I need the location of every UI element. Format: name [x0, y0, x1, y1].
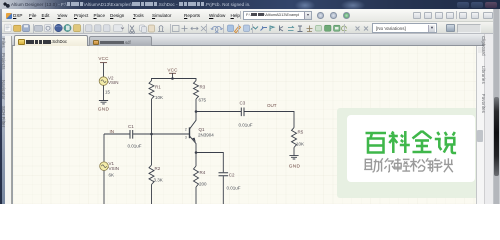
right panel tab strip — [484, 34, 493, 204]
wire C2 bottom — [222, 176, 224, 204]
left window frame — [0, 9, 2, 204]
svg-text:C3: C3 — [240, 101, 246, 106]
wire R4 bottom — [195, 187, 197, 204]
wire VCC rail — [152, 79, 197, 81]
R2 designator — [155, 166, 161, 171]
capacitor C3 — [241, 108, 244, 117]
svg-text:0.01uF: 0.01uF — [128, 144, 142, 149]
svg-text:10K: 10K — [296, 142, 304, 147]
junction VCC rail — [171, 77, 174, 80]
svg-text:2: 2 — [185, 127, 187, 131]
net label IN — [110, 129, 115, 134]
wire VCC bar to V2 — [103, 63, 105, 77]
Q1 designator — [199, 127, 206, 132]
resistor R1 — [149, 81, 154, 99]
wire C1 to Q1 base — [133, 133, 189, 135]
svg-text:R1: R1 — [155, 84, 161, 89]
toolbar — [0, 22, 500, 34]
svg-text:R2: R2 — [155, 166, 161, 171]
ground GND (R5) — [289, 156, 301, 170]
left panel tab strip — [5, 36, 12, 204]
transistor Q1 — [190, 112, 197, 153]
svg-text:R3: R3 — [200, 84, 206, 89]
voltage source V1 — [100, 162, 109, 171]
svg-text:C2: C2 — [229, 172, 235, 177]
R5 value 10K — [296, 142, 304, 147]
resistor R2 — [149, 165, 154, 185]
resistor R4 — [194, 166, 199, 187]
power VCC (rail) — [167, 67, 178, 73]
svg-text:IN: IN — [110, 129, 115, 134]
svg-text:3: 3 — [185, 136, 187, 140]
right window frame — [493, 9, 500, 204]
R1 designator — [155, 84, 161, 89]
svg-text:GND: GND — [98, 107, 110, 113]
V2 value 15 — [105, 90, 111, 95]
Q1 pin 2 — [185, 127, 187, 131]
voltage source V2 — [99, 77, 108, 86]
svg-text:R4: R4 — [200, 170, 206, 175]
R5 designator — [298, 129, 304, 134]
R3 value 675 — [199, 98, 207, 103]
wire V2 to GND — [103, 85, 105, 100]
svg-text:VSIN: VSIN — [109, 166, 120, 171]
V1 value 6K — [109, 173, 115, 178]
wire emitter node to R4 — [195, 153, 197, 167]
V1 designator labels — [109, 161, 120, 171]
C3 value 0.01uF — [239, 123, 253, 128]
wire C3 to OUT corner — [244, 112, 294, 128]
wire collector node to C3 — [196, 111, 241, 113]
wire V1 bottom — [103, 171, 105, 205]
net label OUT — [267, 103, 277, 108]
svg-text:VCC: VCC — [167, 67, 178, 72]
capacitor C1 — [130, 130, 133, 139]
ground GND (V2) — [98, 101, 110, 113]
capacitor C2 — [219, 173, 229, 176]
junction emitter node — [195, 151, 198, 154]
C3 designator — [240, 101, 246, 106]
junction collector node — [195, 110, 198, 113]
title bar — [0, 0, 500, 9]
menu bar — [0, 9, 500, 22]
C1 value 0.01uF — [128, 144, 142, 149]
wire R2 bottom — [151, 185, 153, 205]
schematic canvas — [12, 46, 477, 204]
R2 value 3.3K — [154, 178, 163, 183]
resistor R3 — [194, 81, 199, 99]
R4 designator — [200, 170, 206, 175]
svg-text:R5: R5 — [298, 129, 304, 134]
wire VCC stub — [172, 73, 174, 78]
document tab row — [0, 34, 500, 46]
wire IN corner down to V1 — [103, 134, 105, 162]
resistor R5 — [292, 128, 297, 148]
power VCC (V2 branch) — [98, 56, 109, 62]
svg-text:200: 200 — [199, 182, 207, 187]
svg-text:0.01uF: 0.01uF — [227, 185, 241, 190]
wire base node to R2 — [151, 134, 153, 165]
svg-text:0.01uF: 0.01uF — [239, 123, 253, 128]
watermark overlay 百科全说 — [337, 108, 480, 198]
svg-text:10K: 10K — [155, 95, 163, 100]
wire R5 to GND — [293, 148, 295, 156]
svg-text:2N3904: 2N3904 — [198, 132, 214, 137]
wire emitter node to C2 — [196, 153, 223, 173]
svg-text:OUT: OUT — [267, 103, 277, 108]
wire IN corner to C1 — [104, 133, 130, 135]
C1 designator — [128, 124, 134, 129]
R3 designator — [200, 84, 206, 89]
wire R3 bottom to collector node — [195, 99, 197, 112]
right scrollbar strip — [476, 46, 484, 204]
svg-text:VCC: VCC — [98, 56, 109, 61]
svg-text:6K: 6K — [109, 173, 115, 178]
R1 value 10K — [155, 95, 163, 100]
wire R1 bottom to base node — [151, 99, 153, 134]
svg-text:3.3K: 3.3K — [154, 178, 163, 183]
Q1 part 2N3904 — [198, 132, 214, 137]
Q1 pin 3 — [185, 136, 187, 140]
svg-text:Q1: Q1 — [199, 127, 206, 132]
junction base node — [150, 133, 153, 136]
svg-text:VSIN: VSIN — [108, 80, 119, 85]
C2 designator — [229, 172, 235, 177]
svg-text:GND: GND — [289, 164, 301, 170]
svg-text:C1: C1 — [128, 124, 134, 129]
V2 designator labels — [108, 75, 119, 85]
svg-text:15: 15 — [105, 90, 111, 95]
C2 value 0.01uF — [227, 185, 241, 190]
R4 value 200 — [199, 182, 207, 187]
svg-text:675: 675 — [199, 98, 207, 103]
